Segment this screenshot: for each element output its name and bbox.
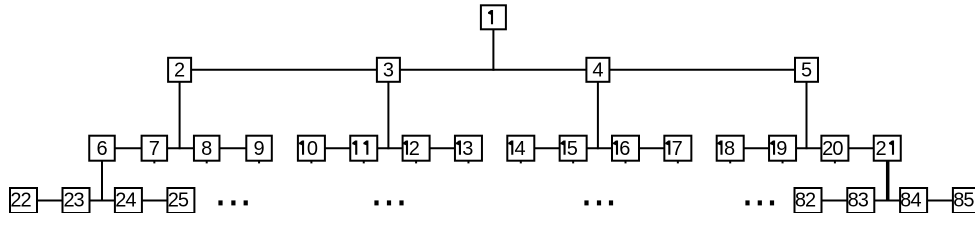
wire stub below node 14 xyxy=(520,161,522,164)
ellipsis for elided children of nodes 14-17 xyxy=(584,200,613,205)
node 85 xyxy=(953,188,975,213)
node 22 xyxy=(10,188,37,213)
svg-text:2: 2 xyxy=(875,138,886,160)
node 8 xyxy=(194,136,220,161)
node 1 (root) xyxy=(481,5,506,29)
node 18 xyxy=(717,136,744,161)
svg-text:6: 6 xyxy=(619,138,630,160)
svg-text:2: 2 xyxy=(174,60,185,82)
node 11 xyxy=(350,136,377,161)
svg-text:8: 8 xyxy=(724,138,735,160)
svg-text:7: 7 xyxy=(149,138,160,160)
wire stub below node 20 xyxy=(834,161,836,164)
wire stub below node 16 xyxy=(625,161,627,164)
wire level-4 bus segment 83-84 xyxy=(874,200,900,202)
svg-text:3: 3 xyxy=(383,60,394,82)
wire level-3 bus segment 15-16 xyxy=(587,147,612,149)
node 19 xyxy=(769,136,796,161)
node 7 xyxy=(142,136,168,161)
wire stub below node 8 xyxy=(206,161,208,164)
wire level-3 bus segment 10-11 xyxy=(325,147,350,149)
svg-text:9: 9 xyxy=(776,138,787,160)
wire stub below node 19 xyxy=(782,161,784,164)
node 24 xyxy=(115,188,142,213)
node 83 xyxy=(847,188,874,213)
wire stub below node 15 xyxy=(572,161,574,164)
wire node 3 to children bus xyxy=(387,82,389,149)
node 14 xyxy=(507,136,534,161)
svg-text:2: 2 xyxy=(805,190,816,212)
wire stub below node 17 xyxy=(677,161,679,164)
wire level-4 bus segment 84-85 xyxy=(927,200,953,202)
svg-text:2: 2 xyxy=(20,190,31,212)
ellipsis for elided children of nodes 7-9 xyxy=(218,200,247,205)
wire node 5 to children bus xyxy=(806,82,808,149)
node 5 xyxy=(795,58,818,82)
wire level-2 bus segment 4-5 xyxy=(609,69,795,71)
wire node 2 to children bus xyxy=(179,82,181,149)
wire level-3 bus segment 11-12 xyxy=(377,147,402,149)
svg-text:0: 0 xyxy=(832,138,843,160)
svg-text:3: 3 xyxy=(462,138,473,160)
wire level-3 bus segment 6-7 xyxy=(115,147,142,149)
node 2 xyxy=(168,58,191,82)
wire level-4 bus segment 24-25 xyxy=(142,200,168,202)
wire level-4 bus segment 22-23 xyxy=(37,200,63,202)
wire level-3 bus segment 7-8 xyxy=(167,147,194,149)
svg-text:4: 4 xyxy=(910,190,921,212)
wire level-3 bus segment 18-19 xyxy=(744,147,769,149)
svg-text:4: 4 xyxy=(592,60,603,82)
node 20 xyxy=(821,136,848,161)
svg-text:7: 7 xyxy=(672,138,683,160)
wire level-3 bus segment 16-17 xyxy=(639,147,664,149)
node 4 xyxy=(586,58,609,82)
svg-text:2: 2 xyxy=(409,138,420,160)
node 21 xyxy=(874,136,901,161)
node 25 xyxy=(167,188,194,213)
svg-text:8: 8 xyxy=(201,138,212,160)
node 82 xyxy=(795,188,822,213)
svg-text:3: 3 xyxy=(858,190,869,212)
wire level-3 bus segment 19-20 xyxy=(796,147,821,149)
wire stub below node 11 xyxy=(363,161,365,164)
svg-text:6: 6 xyxy=(96,138,107,160)
wire level-3 bus segment 12-13 xyxy=(430,147,455,149)
node 9 xyxy=(246,136,271,161)
svg-text:9: 9 xyxy=(253,138,264,160)
ellipsis for elided children of nodes 10-13 xyxy=(374,200,403,205)
wire level-3 bus segment 14-15 xyxy=(534,147,559,149)
wire node 6 to children bus xyxy=(101,161,103,201)
svg-text:4: 4 xyxy=(125,190,136,212)
wire stub below node 10 xyxy=(310,161,312,164)
wire stub below node 7 xyxy=(153,161,155,164)
ellipsis for elided children of nodes 18-20 xyxy=(745,200,774,205)
wire root 1 to level-2 bus xyxy=(492,29,494,71)
wire stub below node 13 xyxy=(467,161,469,164)
node 13 xyxy=(455,136,482,161)
svg-text:5: 5 xyxy=(801,60,812,82)
node 12 xyxy=(403,136,430,161)
wire stub below node 18 xyxy=(729,161,731,164)
node 6 xyxy=(89,136,115,161)
svg-text:4: 4 xyxy=(515,138,526,160)
node 84 xyxy=(900,188,927,213)
svg-text:0: 0 xyxy=(307,138,318,160)
node 3 xyxy=(377,58,400,82)
wire level-2 bus segment 2-3 xyxy=(191,69,377,71)
svg-text:5: 5 xyxy=(567,138,578,160)
wire level-3 bus segment 8-9 xyxy=(219,147,246,149)
wire level-4 bus segment 23-24 xyxy=(90,200,115,202)
node 17 xyxy=(664,136,691,161)
wire level-2 bus segment 3-4 xyxy=(400,69,587,71)
node 10 xyxy=(298,136,325,161)
node 16 xyxy=(612,136,639,161)
node 23 xyxy=(63,188,90,213)
wire node 21 to children bus (thick) xyxy=(886,161,890,201)
wire stub below node 9 xyxy=(258,161,260,164)
svg-text:3: 3 xyxy=(73,190,84,212)
wire stub below node 12 xyxy=(415,161,417,164)
svg-text:5: 5 xyxy=(178,190,189,212)
wire level-3 bus segment 20-21 xyxy=(848,147,873,149)
svg-text:5: 5 xyxy=(963,190,974,212)
node 15 xyxy=(560,136,587,161)
wire node 4 to children bus xyxy=(597,82,599,149)
wire level-4 bus segment 82-83 xyxy=(822,200,848,202)
